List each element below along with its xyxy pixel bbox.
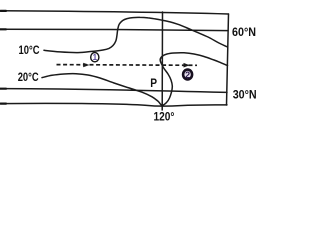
svg-text:1: 1 xyxy=(93,53,98,62)
svg-text:30°N: 30°N xyxy=(233,87,257,101)
svg-text:P: P xyxy=(150,76,157,90)
svg-text:10°C: 10°C xyxy=(19,43,40,57)
svg-text:20°C: 20°C xyxy=(18,70,39,84)
svg-text:2: 2 xyxy=(185,70,190,80)
svg-text:120°: 120° xyxy=(154,110,175,124)
svg-text:60°N: 60°N xyxy=(232,25,256,39)
